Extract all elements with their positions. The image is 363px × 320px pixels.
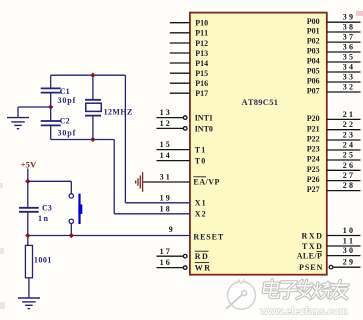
svg-text:www.elecfans.com: www.elecfans.com bbox=[259, 307, 348, 318]
svg-text:23: 23 bbox=[343, 131, 355, 140]
svg-text:P27: P27 bbox=[307, 185, 320, 194]
svg-text:P21: P21 bbox=[307, 124, 320, 133]
svg-text:P10: P10 bbox=[195, 19, 208, 28]
svg-text:P17: P17 bbox=[195, 89, 208, 98]
svg-text:15: 15 bbox=[160, 140, 172, 149]
svg-text:X2: X2 bbox=[195, 209, 207, 218]
svg-text:X1: X1 bbox=[195, 198, 207, 207]
svg-text:1n: 1n bbox=[38, 214, 49, 223]
svg-text:RESET: RESET bbox=[193, 232, 224, 241]
svg-text:10: 10 bbox=[343, 226, 355, 235]
svg-text:C1: C1 bbox=[60, 87, 70, 96]
svg-text:28: 28 bbox=[343, 181, 355, 190]
svg-text:+5V: +5V bbox=[21, 159, 37, 169]
svg-text:T1: T1 bbox=[195, 146, 207, 155]
svg-text:30pf: 30pf bbox=[58, 96, 77, 105]
svg-text:T0: T0 bbox=[195, 157, 207, 166]
svg-text:33: 33 bbox=[343, 73, 355, 82]
svg-text:12: 12 bbox=[160, 119, 172, 128]
svg-text:38: 38 bbox=[343, 23, 355, 32]
svg-text:P05: P05 bbox=[307, 67, 320, 76]
svg-text:P00: P00 bbox=[307, 17, 320, 26]
svg-text:25: 25 bbox=[343, 151, 355, 160]
svg-text:29: 29 bbox=[343, 258, 355, 267]
svg-text:P15: P15 bbox=[195, 69, 208, 78]
svg-text:PSEN: PSEN bbox=[299, 263, 323, 272]
svg-text:P03: P03 bbox=[307, 47, 320, 56]
svg-text:P20: P20 bbox=[307, 114, 320, 123]
svg-text:1001: 1001 bbox=[34, 256, 52, 265]
svg-text:17: 17 bbox=[160, 247, 172, 256]
svg-text:P11: P11 bbox=[195, 29, 208, 38]
svg-text:16: 16 bbox=[160, 258, 172, 267]
svg-text:34: 34 bbox=[343, 63, 355, 72]
svg-text:24: 24 bbox=[343, 141, 355, 150]
svg-text:13: 13 bbox=[160, 108, 172, 117]
svg-text:TXD: TXD bbox=[302, 242, 323, 251]
svg-text:9: 9 bbox=[169, 225, 174, 234]
svg-text:12MHZ: 12MHZ bbox=[104, 107, 133, 116]
svg-text:P06: P06 bbox=[307, 77, 320, 86]
svg-text:19: 19 bbox=[160, 193, 172, 202]
svg-text:39: 39 bbox=[343, 13, 355, 22]
svg-text:P25: P25 bbox=[307, 165, 320, 174]
svg-text:C2: C2 bbox=[60, 117, 70, 126]
svg-text:EA/VP: EA/VP bbox=[193, 178, 220, 187]
svg-text:INT0: INT0 bbox=[195, 124, 213, 133]
svg-text:RD: RD bbox=[195, 252, 210, 261]
svg-text:30: 30 bbox=[343, 246, 355, 255]
svg-text:P23: P23 bbox=[307, 145, 320, 154]
svg-text:22: 22 bbox=[343, 120, 355, 129]
svg-text:P16: P16 bbox=[195, 79, 208, 88]
svg-text:11: 11 bbox=[343, 237, 355, 246]
svg-text:P24: P24 bbox=[307, 155, 320, 164]
svg-text:30pf: 30pf bbox=[58, 128, 77, 137]
svg-text:P12: P12 bbox=[195, 39, 208, 48]
svg-text:21: 21 bbox=[343, 110, 355, 119]
svg-text:36: 36 bbox=[343, 43, 355, 52]
svg-text:14: 14 bbox=[160, 151, 172, 160]
svg-text:C3: C3 bbox=[42, 204, 52, 213]
svg-text:35: 35 bbox=[343, 53, 355, 62]
svg-text:P26: P26 bbox=[307, 175, 320, 184]
svg-text:P14: P14 bbox=[195, 59, 208, 68]
svg-text:WR: WR bbox=[195, 263, 212, 272]
svg-text:P01: P01 bbox=[307, 27, 320, 36]
svg-text:P22: P22 bbox=[307, 135, 320, 144]
svg-text:18: 18 bbox=[160, 204, 172, 213]
svg-text:P13: P13 bbox=[195, 49, 208, 58]
svg-text:AT89C51: AT89C51 bbox=[242, 97, 279, 107]
svg-text:P07: P07 bbox=[307, 87, 320, 96]
svg-text:27: 27 bbox=[343, 171, 355, 180]
svg-text:26: 26 bbox=[343, 161, 355, 170]
svg-text:RXD: RXD bbox=[302, 231, 324, 240]
svg-text:P02: P02 bbox=[307, 37, 320, 46]
svg-text:P04: P04 bbox=[307, 57, 320, 66]
svg-text:INT1: INT1 bbox=[195, 114, 213, 123]
svg-text:ALE/P: ALE/P bbox=[297, 252, 323, 261]
svg-text:31: 31 bbox=[160, 173, 172, 182]
svg-text:32: 32 bbox=[343, 83, 355, 92]
svg-text:37: 37 bbox=[343, 33, 355, 42]
